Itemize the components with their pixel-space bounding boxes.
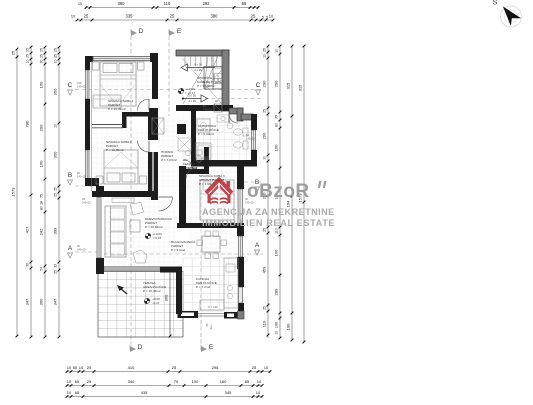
dimension chain top 2	[71, 14, 275, 22]
wc toilet	[196, 150, 202, 155]
tv bench living	[112, 198, 134, 203]
svg-text:360: 360	[39, 298, 44, 305]
terrace left pier	[96, 265, 104, 274]
svg-text:80: 80	[40, 206, 44, 210]
svg-text:P = 130: P = 130	[209, 305, 219, 309]
svg-text:110: 110	[275, 228, 279, 234]
nightstand left bed1	[93, 62, 100, 70]
svg-text:335: 335	[126, 14, 134, 19]
svg-text:140+25: 140+25	[203, 108, 212, 112]
north arrow	[503, 7, 521, 27]
bed bedroom2	[104, 150, 138, 184]
wardrobe bedroom1	[93, 95, 121, 108]
stair right wall	[222, 50, 229, 111]
svg-text:P = 7,27m2: P = 7,27m2	[161, 158, 177, 162]
svg-text:160: 160	[39, 160, 44, 167]
wc right wall	[204, 147, 209, 171]
svg-text:25: 25	[170, 14, 175, 19]
svg-text:25: 25	[40, 48, 44, 52]
svg-text:30: 30	[40, 60, 44, 64]
svg-text:25: 25	[251, 14, 256, 19]
left outer wall below window	[85, 180, 90, 186]
svg-text:140+25: 140+25	[77, 85, 86, 89]
svg-text:10: 10	[275, 49, 279, 53]
window right bathroom	[252, 130, 256, 150]
svg-text:110: 110	[262, 320, 267, 327]
section marker A left	[68, 244, 87, 258]
section marker E bottom	[201, 344, 214, 352]
dining window right	[239, 236, 243, 257]
kitchen right wall lower	[238, 303, 244, 319]
svg-text:65: 65	[75, 379, 80, 384]
kitchen bottom corner gray	[238, 311, 245, 319]
bathroom door	[229, 114, 238, 123]
bathroom tile grid	[196, 117, 251, 160]
svg-text:360: 360	[118, 1, 126, 6]
living left wall lower block	[96, 258, 104, 271]
svg-text:242: 242	[39, 228, 44, 235]
svg-text:25: 25	[54, 270, 58, 274]
bed bedroom1	[100, 62, 136, 106]
svg-text:100: 100	[286, 323, 291, 330]
dimension chain right 2	[274, 45, 282, 340]
svg-text:10: 10	[263, 156, 267, 160]
svg-text:P = 10,39m2: P = 10,39m2	[108, 107, 126, 111]
bedroom3 right wall upper	[237, 166, 244, 189]
svg-text:410: 410	[128, 365, 135, 370]
section line B dashed	[75, 185, 97, 187]
svg-text:18: 18	[40, 201, 44, 205]
dimension chain right 1	[262, 45, 270, 338]
svg-text:25: 25	[87, 379, 92, 384]
dimension chain bottom 2	[66, 379, 264, 387]
bathroom shower	[197, 119, 210, 132]
section marker C left	[68, 81, 87, 95]
shaft niche above bathroom	[214, 104, 222, 112]
kitchen right window	[239, 287, 243, 303]
terrace railing gray band	[104, 267, 160, 271]
nightstand left bed2	[96, 176, 103, 184]
svg-text:25: 25	[11, 50, 16, 55]
svg-text:25: 25	[263, 109, 267, 113]
svg-text:A: A	[255, 242, 260, 249]
svg-text:25: 25	[26, 48, 30, 52]
living left wall upper block	[96, 186, 104, 197]
bathroom bottom wall	[191, 160, 257, 167]
svg-text:25: 25	[252, 365, 257, 370]
north compass circle	[501, 6, 522, 27]
bedroom divider wall	[122, 112, 149, 117]
section line E dashed bottom	[200, 190, 202, 345]
svg-text:347: 347	[53, 298, 58, 305]
dimension chain bottom 1	[66, 365, 272, 373]
svg-text:C: C	[68, 82, 73, 89]
entry top wall to outer	[241, 114, 253, 120]
svg-text:160: 160	[274, 249, 279, 256]
svg-text:IMMOBILIEN REAL ESTATE: IMMOBILIEN REAL ESTATE	[202, 218, 335, 228]
svg-text:315: 315	[286, 82, 291, 89]
step corner block left	[85, 178, 99, 186]
left outer wall upper (bedroom1)	[85, 56, 90, 70]
svg-text:70: 70	[174, 379, 179, 384]
svg-text:P = 7,2m2: P = 7,2m2	[196, 285, 210, 289]
svg-text:P = 5,60m2: P = 5,60m2	[198, 132, 214, 136]
bedroom1 door corner block	[149, 108, 158, 116]
corner block top-right bedroom 1	[150, 53, 158, 62]
svg-text:25: 25	[54, 187, 58, 191]
svg-text:25: 25	[54, 54, 58, 58]
svg-text:10: 10	[264, 365, 269, 370]
bedroom3 bottom wall	[177, 223, 244, 228]
svg-text:25: 25	[263, 48, 267, 52]
nightstand right bed1	[138, 62, 145, 70]
window left bedroom1	[86, 70, 90, 99]
section marker A right	[255, 242, 260, 255]
dimension chain left 2	[25, 46, 33, 339]
svg-text:10: 10	[26, 60, 30, 64]
svg-text:315: 315	[298, 84, 303, 91]
svg-text:10: 10	[269, 15, 273, 19]
hall column stub	[177, 105, 186, 111]
svg-text:= 0,15: = 0,15	[153, 236, 162, 240]
svg-text:290: 290	[262, 80, 267, 87]
svg-text:290: 290	[274, 80, 279, 87]
svg-text:350: 350	[53, 88, 58, 95]
bathroom sink	[227, 123, 233, 129]
svg-text:P = 9,9m2: P = 9,9m2	[171, 248, 185, 252]
stair top wall	[176, 50, 229, 56]
terrace internal dimension 360	[169, 270, 171, 336]
svg-text:289: 289	[274, 288, 279, 295]
window band top bedroom 1	[93, 57, 151, 61]
dimension chain left 1 (total 1579)	[11, 48, 19, 338]
svg-text:10: 10	[67, 365, 72, 370]
svg-text:100: 100	[192, 379, 199, 384]
bathroom toilet	[243, 128, 248, 136]
svg-text:4 x 25: 4 x 25	[194, 68, 202, 72]
svg-text:10: 10	[79, 365, 84, 370]
hodnik closet hatched	[152, 118, 164, 134]
terrace north-west arrow	[119, 287, 127, 294]
kitchen top-right corner wall	[237, 257, 244, 269]
svg-text:340: 340	[128, 379, 135, 384]
svg-text:290: 290	[39, 124, 44, 131]
svg-text:P = 16,84m2: P = 16,84m2	[145, 225, 163, 229]
svg-text:30: 30	[26, 263, 30, 267]
hall wall between bedrooms and hodnik upper	[148, 116, 158, 140]
dimension chain bottom 3	[66, 390, 264, 398]
bedroom1 inner face below window	[92, 60, 151, 62]
window left bedroom2	[86, 150, 90, 180]
bedroom3 right wall lower corner	[237, 227, 244, 236]
nightstand right bed2	[140, 176, 147, 184]
svg-text:160: 160	[274, 144, 279, 151]
svg-text:10: 10	[67, 390, 72, 395]
kitchen counter right	[224, 258, 238, 308]
svg-text:80: 80	[275, 123, 279, 127]
bathroom tub	[196, 143, 211, 159]
svg-text:-0,17: -0,17	[153, 301, 160, 305]
svg-text:25: 25	[87, 365, 92, 370]
svg-text:S: S	[492, 0, 497, 7]
svg-text:240+25: 240+25	[77, 248, 86, 252]
svg-text:427: 427	[25, 226, 30, 233]
svg-text:65: 65	[242, 1, 247, 6]
svg-text:10: 10	[256, 390, 261, 395]
svg-text:160: 160	[39, 81, 44, 88]
svg-text:C: C	[256, 82, 261, 89]
svg-text:P = 1,75m2: P = 1,75m2	[183, 166, 198, 170]
svg-text:1579: 1579	[11, 187, 16, 197]
level marker living	[145, 233, 150, 238]
section marker D bottom	[130, 344, 143, 352]
svg-text:435: 435	[141, 390, 148, 395]
terrace tile grid	[98, 272, 183, 338]
svg-text:260: 260	[262, 132, 267, 139]
left outer wall mid	[85, 99, 90, 150]
dimension chain right 3	[286, 45, 294, 342]
stair arrow lower (right)	[183, 98, 201, 100]
section marker C right	[256, 82, 261, 95]
svg-text:E: E	[177, 28, 182, 35]
svg-text:10: 10	[263, 54, 267, 58]
section marker D top	[131, 28, 144, 36]
hodnik-living door	[159, 197, 173, 211]
svg-text:100: 100	[77, 81, 82, 85]
svg-text:75: 75	[40, 194, 44, 198]
hodnik/bedroom3 left wall	[179, 166, 186, 224]
svg-text:360: 360	[164, 294, 169, 301]
bedroom2 door	[138, 141, 150, 153]
svg-text:65: 65	[75, 390, 80, 395]
section line A dashed	[75, 251, 98, 253]
svg-text:P = 10,95m2: P = 10,95m2	[106, 148, 124, 152]
svg-text:5: 5	[266, 16, 268, 20]
watermark obzor logo house	[206, 180, 232, 205]
svg-text:295: 295	[212, 365, 219, 370]
dining table	[202, 236, 220, 252]
svg-text:4 x 25: 4 x 25	[188, 99, 196, 103]
dimension chain left 4	[53, 46, 61, 339]
svg-text:AGENCIJA ZA NEKRETNINE: AGENCIJA ZA NEKRETNINE	[202, 207, 335, 217]
bedroom1 door	[138, 99, 150, 111]
closet hodnik-bath hatched	[178, 138, 191, 151]
section marker B left	[68, 171, 87, 185]
svg-text:54: 54	[40, 267, 44, 271]
svg-text:25: 25	[54, 48, 58, 52]
terrace top-right pier	[160, 267, 182, 273]
svg-text:350: 350	[53, 151, 58, 158]
wc door	[184, 160, 193, 169]
kitchen counter bottom	[200, 300, 224, 310]
dimension chain left 3	[39, 46, 47, 339]
window left living room	[97, 197, 101, 258]
bathroom bidet	[243, 141, 248, 149]
coffee table	[130, 220, 140, 232]
section line C dashed	[75, 89, 264, 91]
svg-text:25: 25	[26, 54, 30, 58]
stair arrow upper (left)	[186, 67, 215, 69]
right outer wall bath lower	[251, 150, 257, 161]
kitchen bottom window glazing	[198, 313, 224, 315]
entry corner wall	[237, 108, 243, 121]
svg-text:P = 15,45m2: P = 15,45m2	[143, 289, 161, 293]
svg-text:25: 25	[54, 193, 58, 197]
stair inner outline	[204, 67, 222, 90]
window right bedroom3	[238, 189, 243, 227]
svg-text:10: 10	[54, 124, 58, 128]
left wall inner face line	[91, 61, 93, 191]
svg-text:5: 5	[262, 16, 264, 20]
svg-text:345: 345	[225, 390, 232, 395]
kitchen tile grid	[183, 258, 238, 311]
svg-text:10: 10	[71, 15, 75, 19]
hodnik right wall upper stub	[177, 124, 186, 134]
svg-text:D: D	[138, 344, 143, 351]
terrace level marker	[144, 298, 149, 303]
kitchen right wall	[238, 269, 244, 287]
bedroom1 right wall	[152, 62, 158, 99]
section line D dashed	[130, 36, 132, 345]
parquet grids faint	[92, 61, 237, 266]
svg-text:140+25: 140+25	[77, 175, 86, 179]
wc bottom wall	[182, 169, 209, 174]
bathroom vanity	[217, 115, 230, 122]
outer wall top-left corner bedroom 1	[85, 56, 93, 62]
svg-text:347: 347	[25, 298, 30, 305]
svg-text:10: 10	[67, 379, 72, 384]
svg-text:240+25: 240+25	[82, 201, 91, 205]
svg-text:780: 780	[25, 120, 30, 127]
svg-text:E1: E1	[215, 99, 219, 103]
svg-text:B: B	[68, 172, 72, 179]
svg-text:459: 459	[262, 266, 267, 273]
svg-text:10: 10	[78, 2, 82, 6]
kitchen bottom wall window frame left	[178, 311, 199, 318]
dining chairs	[205, 231, 211, 237]
svg-text:D: D	[139, 28, 144, 35]
section marker E top	[169, 28, 182, 36]
svg-text:85: 85	[245, 379, 250, 384]
section line E dashed top	[168, 36, 170, 116]
svg-text:399: 399	[53, 227, 58, 234]
sofa living room	[105, 206, 126, 257]
svg-text:P = 10,36m2: P = 10,36m2	[197, 84, 215, 88]
dimension chain right 4	[298, 45, 306, 344]
bathroom top wall to outer	[229, 108, 243, 114]
plant living	[133, 250, 147, 263]
svg-text:25: 25	[263, 306, 267, 310]
svg-text:oBzoR: oBzoR	[247, 181, 310, 202]
svg-text:100: 100	[275, 322, 279, 328]
partition bedroom1/bedroom2 thin	[92, 124, 123, 126]
svg-text:13: 13	[54, 264, 58, 268]
svg-text:25: 25	[84, 14, 89, 19]
living top wall corner right	[151, 191, 158, 200]
svg-text:75: 75	[275, 115, 279, 119]
terrace outline	[98, 272, 183, 338]
svg-text:140+25: 140+25	[246, 137, 255, 141]
wc tile grid	[183, 148, 204, 169]
dimension chain top 1	[78, 1, 260, 9]
svg-text:25: 25	[172, 365, 177, 370]
bed bedroom3	[200, 180, 234, 220]
wc sink	[185, 150, 190, 155]
stair winder fan lines	[204, 80, 222, 89]
svg-text:25: 25	[40, 54, 44, 58]
svg-text:90+...: 90+...	[209, 322, 213, 329]
terrace kitchen divider wall	[176, 268, 182, 314]
svg-text:= +0,17: = +0,17	[185, 91, 196, 95]
hall wall lower (bedroom2 right)	[148, 152, 158, 191]
svg-text:25: 25	[263, 228, 267, 232]
divider vertical stub	[122, 112, 127, 128]
svg-text:10: 10	[54, 60, 58, 64]
svg-text:5 x 30: 5 x 30	[194, 63, 202, 67]
living top wall	[92, 191, 157, 197]
bathroom left wall	[191, 111, 196, 166]
section marker B right	[255, 179, 260, 192]
svg-text:10: 10	[275, 331, 279, 335]
svg-text:110: 110	[164, 1, 171, 6]
svg-text:160: 160	[220, 379, 227, 384]
svg-text:A: A	[68, 245, 73, 252]
armchair living	[130, 203, 144, 216]
stair bottom wall / hall top wall	[176, 105, 233, 111]
svg-text:10: 10	[257, 379, 262, 384]
right outer wall bath upper	[251, 114, 257, 130]
svg-text:E: E	[209, 344, 214, 351]
level marker stair	[178, 88, 183, 93]
stair diagonal break lines	[182, 58, 222, 104]
svg-text:380: 380	[211, 14, 219, 19]
bedroom3 door	[186, 168, 197, 179]
svg-text:292: 292	[203, 1, 211, 6]
svg-text:55: 55	[73, 365, 78, 370]
kitchen bottom wall window frame right	[224, 312, 238, 319]
stair treads vertical	[185, 56, 222, 89]
